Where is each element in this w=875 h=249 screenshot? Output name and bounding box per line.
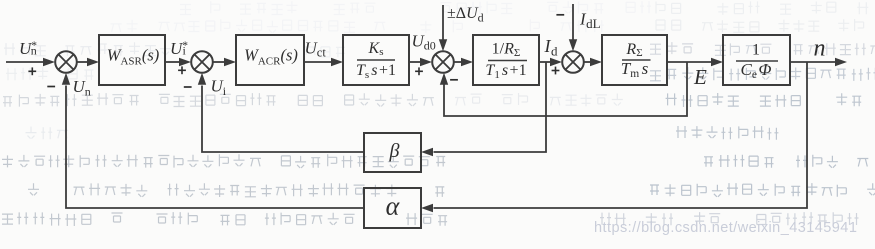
svg-text:1: 1 [752,42,760,59]
disturbance arrow plus-minus delta Ud [439,5,447,51]
label Ui feedback [211,77,227,99]
summing junction S4 [562,51,584,73]
wire: R/Tm block to 1/Ce block, label E [667,58,723,66]
wire: Ks block to S3 [409,58,432,66]
svg-text:E: E [693,65,707,89]
svg-text:IdL: IdL [579,10,601,32]
wire: alpha output to S1 [62,73,364,208]
block W_ACR(s) current regulator [236,35,304,85]
svg-text:Id: Id [544,36,559,59]
svg-text:WASR(s): WASR(s) [107,46,160,68]
svg-text:U*i: U*i [170,39,188,58]
block 1/(Ce Phi) [723,35,790,85]
label plus sign at S4 [552,67,560,75]
label Id [544,36,559,59]
svg-text:WACR(s): WACR(s) [244,46,298,68]
label minus sign at S1 [47,86,55,88]
svg-text:Tms: Tms [621,59,649,80]
label plus sign at summing junction S1 [28,67,36,75]
label Un* [19,39,37,58]
label plus-minus delta Ud [447,5,484,25]
load disturbance arrow IdL [569,4,577,51]
wire: ASR to S2 [165,58,191,66]
label Uct [305,39,327,60]
svg-text:RΣ: RΣ [625,41,642,59]
wire: 1/R block to S4, label Id [539,58,562,66]
wire: ACR to Ks block, label Uct [304,58,343,66]
label minus sign at S2 [184,86,192,88]
label E back-EMF [693,65,707,89]
svg-text:Uct: Uct [305,39,327,60]
block W_ASR(s) speed regulator [99,35,165,85]
block alpha speed feedback coefficient [364,188,421,228]
svg-text:α: α [386,192,401,221]
svg-text:1/RΣ: 1/RΣ [492,41,521,60]
summing junction S2 [191,51,213,73]
wire: beta output to S2 [198,73,364,152]
wire: S1 to ASR block [77,58,99,66]
label Un feedback [73,77,91,99]
wire: S2 to ACR block [213,58,236,66]
block (1/R)/(T1 s+1) armature circuit [473,35,539,85]
label plus sign at S2 [178,66,186,74]
wire: S4 to R/Tm block [584,58,602,66]
summing junction S1 [55,51,77,73]
svg-text:CeΦ: CeΦ [741,60,772,81]
label plus sign at S3 [415,67,423,75]
svg-text:Tss+1: Tss+1 [356,62,396,81]
svg-text:T1s+1: T1s+1 [485,62,526,81]
wire: speed feedback tap to alpha block [421,62,807,212]
svg-text:U*n: U*n [19,39,37,58]
wire: current feedback tap to beta block [421,62,546,156]
summing junction S3 [432,51,454,73]
svg-text:Ks: Ks [368,40,384,58]
label n speed output [814,36,826,62]
label Ui* [170,39,188,58]
block Ks/(Ts s+1) power converter [343,35,409,85]
label minus sign at IdL [556,14,564,16]
label minus sign at S3 [450,79,458,81]
wire: input Un* arrow [6,58,55,66]
block beta current feedback coefficient [364,133,421,172]
label IdL [579,10,601,32]
wire: back-EMF feedback E to S3 [440,62,687,116]
svg-text:±ΔUd: ±ΔUd [447,5,484,25]
svg-text:Ui: Ui [211,77,227,99]
block R/(Tm s) mechanical [602,35,667,85]
wire: S3 to 1/R block [454,58,473,66]
label Ud0 [412,32,436,53]
svg-text:n: n [814,36,826,62]
wire: output n arrow [790,58,847,66]
svg-text:Un: Un [73,77,91,99]
svg-text:Ud0: Ud0 [412,32,436,53]
svg-text:β: β [389,140,400,162]
